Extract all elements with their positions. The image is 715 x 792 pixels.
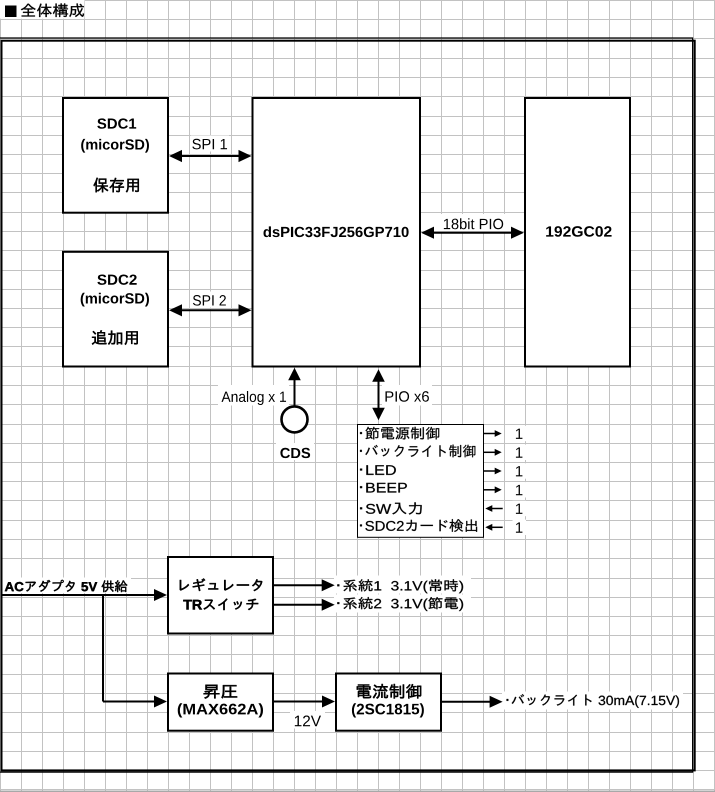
title black square bullet bbox=[5, 6, 17, 18]
arrow backlight output bbox=[442, 701, 491, 703]
box boost converter MAX662A bbox=[168, 674, 273, 731]
label hozon-you (storage) bbox=[94, 178, 139, 193]
wire 5V supply to regulator with arrow bbox=[2, 594, 155, 596]
label shouatsu (boost) bbox=[204, 685, 237, 699]
label 18bit PIO bbox=[444, 218, 503, 229]
label denryuu seigyo (current control) bbox=[357, 684, 421, 699]
box SDC2 (micorSD) additional bbox=[63, 252, 168, 367]
arrow boost 12V to current control bbox=[274, 701, 323, 703]
label CDS bbox=[280, 448, 310, 458]
label system2 3.1V powersave bbox=[337, 597, 463, 611]
box regulator / TR switch bbox=[168, 557, 273, 634]
label (2SC1815) bbox=[352, 703, 424, 717]
label 12V bbox=[295, 716, 321, 727]
signal setsuden-gen seigyo bbox=[360, 427, 439, 440]
bit count 1 (SDC2 detect) bbox=[516, 522, 523, 532]
arrow system1 3.1V output bbox=[273, 584, 323, 586]
arrow PIO x6 (dsPIC to signal list, double headed) bbox=[378, 380, 380, 409]
arrow SPI1 bus (SDC1 to dsPIC, double headed) bbox=[181, 155, 240, 157]
label SPI 1 bbox=[192, 139, 227, 150]
label dsPIC33FJ256GP710 bbox=[263, 226, 408, 237]
arrow signal in row6 bbox=[491, 526, 503, 528]
bit count 1 (backlight) bbox=[516, 447, 523, 457]
label SDC1 bbox=[97, 118, 136, 128]
box GPIO signal list bbox=[358, 425, 484, 538]
signal LED bbox=[360, 465, 396, 475]
arrow SPI2 bus (SDC2 to dsPIC, double headed) bbox=[181, 309, 240, 311]
label tsuika-you (additional) bbox=[92, 330, 138, 344]
label (micorSD) 1 bbox=[81, 139, 149, 153]
bit count 1 (LED) bbox=[516, 466, 523, 476]
arrow signal out row2 bbox=[484, 451, 496, 453]
bit count 1 (BEEP) bbox=[516, 485, 523, 495]
label TR switch bbox=[183, 599, 258, 610]
label regulator bbox=[180, 578, 262, 591]
arrow signal out row1 bbox=[484, 433, 496, 435]
box SDC1 (micorSD) storage bbox=[63, 98, 168, 213]
box U1 dsPIC33FJ256GP710 bbox=[253, 98, 421, 367]
arrow 18bit PIO bus (dsPIC to 192GC02, double headed) bbox=[433, 232, 512, 234]
box U2 192GC02 LCD bbox=[525, 98, 630, 367]
label SDC2 bbox=[97, 274, 136, 284]
label AC adapter 5V supply bbox=[5, 580, 127, 592]
box current control 2SC1815 bbox=[336, 674, 441, 731]
signal SW input bbox=[360, 502, 422, 514]
label backlight 30mA output bbox=[507, 694, 679, 708]
signal SDC2 card detect bbox=[360, 519, 477, 532]
signal backlight seigyo bbox=[360, 445, 475, 458]
label (MAX662A) bbox=[178, 703, 263, 717]
arrow signal out row4 bbox=[484, 489, 496, 491]
arrow Analog input (CDS to dsPIC) bbox=[294, 379, 296, 407]
bit count 1 (setsuden) bbox=[516, 429, 523, 439]
label system1 3.1V always bbox=[337, 579, 463, 593]
arrow system2 3.1V output bbox=[273, 604, 323, 606]
title text zentai kousei bbox=[21, 3, 84, 17]
signal BEEP bbox=[360, 483, 407, 493]
arrow signal in row5 bbox=[491, 508, 503, 510]
wire 5V branch down bbox=[102, 595, 104, 702]
label 192GC02 bbox=[546, 226, 611, 237]
arrow signal out row3 bbox=[484, 470, 496, 472]
bit count 1 (SW) bbox=[516, 504, 523, 514]
label PIO x6 bbox=[385, 391, 428, 402]
wire branch to boost converter with arrow bbox=[103, 701, 154, 703]
CDS photocell circle bbox=[282, 406, 308, 432]
label SPI 2 bbox=[193, 295, 226, 306]
label Analog x 1 bbox=[221, 391, 286, 405]
label (micorSD) 2 bbox=[81, 293, 149, 307]
